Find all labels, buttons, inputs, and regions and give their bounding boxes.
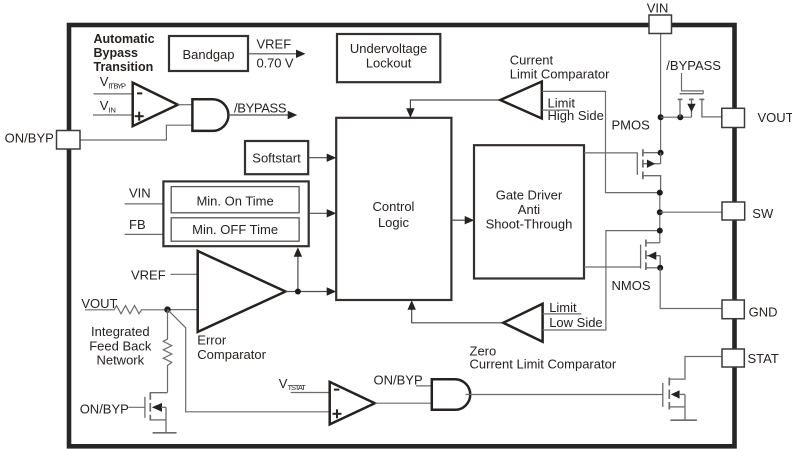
resistor R1 feedback top [85,306,168,314]
pin plus sign [333,413,342,415]
svg-text:ON/BYP: ON/BYP [374,372,423,387]
svg-text:SW: SW [752,206,774,221]
wire error comparator output [286,291,329,293]
svg-text:Min. On Time: Min. On Time [196,193,273,208]
wire comparator output to AND gate [178,104,193,106]
svg-text:GND: GND [749,305,778,320]
and-gate G2 [432,379,470,410]
wire VIN stub [125,203,164,205]
svg-text:VIN: VIN [129,186,151,201]
wire branch to bypass FET [661,116,692,118]
svg-text:0.70 V: 0.70 V [257,55,294,70]
svg-text:VREF: VREF [131,268,166,283]
wire VIN rail [660,34,662,153]
svg-text:Anti: Anti [518,202,541,217]
block timing outer box [163,181,308,246]
svg-text:Automatic: Automatic [94,32,155,46]
svg-text:Integrated: Integrated [91,324,150,339]
wire VOUT node input [168,309,198,311]
svg-text:Undervoltage: Undervoltage [350,41,427,56]
svg-text:VREF: VREF [257,36,292,51]
ground [670,419,697,421]
svg-text:Network: Network [96,352,144,367]
transistor Q5 STAT open-drain NMOS [662,383,664,407]
svg-text:Feed Back: Feed Back [89,338,152,353]
wire high-side sense input [542,91,660,192]
wire AND output to STAT transistor gate [466,394,663,396]
and-gate G1 [192,99,228,131]
block Control Logic [336,118,451,300]
node VOUT divider junction [164,306,170,312]
svg-text:NMOS: NMOS [612,278,651,293]
wire to SW pin [660,211,722,213]
svg-text:Bypass: Bypass [94,46,139,60]
chip outer border [69,25,735,446]
wire switch node rail [659,193,661,243]
wire low-side sense input [543,231,660,330]
pin SW [722,202,745,220]
svg-text:VIN: VIN [647,0,669,15]
svg-text:Low Side: Low Side [549,315,602,330]
op-amp U2 bypass comparator [133,83,178,127]
svg-text:Current: Current [510,52,554,67]
pin ON/BYP [57,131,81,150]
wire ON/BYP pin to AND gate lower input [80,125,192,140]
wire NMOS source to GND pin [660,268,722,309]
wire control logic to gate driver [451,219,466,221]
block Softstart [245,141,308,174]
block Bandgap [169,36,248,71]
svg-text:Transition: Transition [94,60,154,74]
ground [153,432,177,434]
svg-text:PMOS: PMOS [612,117,651,132]
wire sense to thermal comparator [168,310,330,412]
svg-text:Error: Error [197,333,227,348]
svg-text:/BYPASS: /BYPASS [666,58,721,73]
wire upper input stub [543,313,582,315]
pin GND [722,300,744,319]
wire comparator non-inverting input [93,114,133,116]
wire softstart to control logic [308,157,328,159]
svg-text:ON/BYP: ON/BYP [80,401,129,416]
svg-text:VOUT: VOUT [758,110,792,125]
svg-text:Control: Control [373,199,415,214]
svg-text:Lockout: Lockout [366,56,412,71]
svg-text:VOUT: VOUT [81,296,117,311]
svg-text:/BYPASS: /BYPASS [234,100,287,115]
svg-text:Bandgap: Bandgap [182,47,234,62]
svg-text:Logic: Logic [378,215,410,230]
svg-text:Limit: Limit [549,300,577,315]
svg-text:Limit Comparator: Limit Comparator [510,67,610,82]
svg-text:ON/BYP: ON/BYP [5,131,54,146]
node output junction [295,289,301,295]
svg-text:Min. OFF Time: Min. OFF Time [192,222,278,237]
pin minus sign [334,389,339,391]
wire comparator output to control logic top [410,100,500,111]
transistor Q2 low-side NMOS [584,266,641,268]
svg-text:Gate Driver: Gate Driver [496,188,563,203]
pin minus sign [137,92,142,94]
pin VOUT [722,108,745,127]
wire output to timing block bottom [297,254,299,292]
resistor R2 feedback bottom [163,310,171,393]
wire ON/BYP stub [416,385,432,387]
block Min. On Time [171,187,299,213]
svg-text:FB: FB [129,217,146,232]
wire lower input stub [542,109,569,111]
block Min. OFF Time [171,218,299,241]
wire comparator inverting input [94,93,133,95]
pin VIN [649,15,672,34]
block Undervoltage Lockout [337,34,440,82]
wire FB stub [125,233,164,235]
wire /BYPASS output arrow [227,114,289,116]
svg-text:High Side: High Side [548,108,604,123]
block Gate Driver Anti Shoot-Through [474,145,584,278]
node bypass branch [658,114,664,120]
op-amp U6 zero current limit comparator [412,308,504,323]
svg-text:Shoot-Through: Shoot-Through [486,217,573,232]
svg-text:Comparator: Comparator [197,347,266,362]
pin plus sign [135,115,144,117]
svg-text:STAT: STAT [748,351,779,366]
wire comparator output to AND [375,402,432,404]
transistor Q1 high-side PMOS [584,152,637,154]
svg-text:Current Limit Comparator: Current Limit Comparator [470,357,617,372]
wire VREF output arrow [249,53,298,55]
svg-text:Softstart: Softstart [252,150,301,165]
wire VREF input [171,273,198,275]
wire timing block to control logic [309,212,329,214]
pin STAT [722,349,744,367]
